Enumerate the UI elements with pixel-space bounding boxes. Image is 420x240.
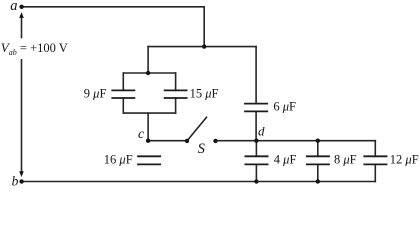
wire vertical x=148 down to parallel block bbox=[147, 47, 149, 73]
svg-text:12 μF: 12 μF bbox=[390, 153, 419, 167]
svg-text:b: b bbox=[12, 173, 19, 188]
wire 9uF top lead bbox=[122, 73, 124, 90]
wire node c to switch pivot bbox=[148, 140, 187, 142]
svg-text:d: d bbox=[258, 124, 265, 139]
wire 6uF bottom lead bbox=[255, 111, 257, 140]
wire 4uF top lead bbox=[255, 141, 257, 157]
wire parallel-block top bus bbox=[123, 72, 175, 74]
junction dot 8uF bottom bbox=[316, 179, 320, 183]
svg-text:16 μF: 16 μF bbox=[104, 153, 133, 167]
switch contact dot bbox=[213, 139, 217, 143]
capacitor 12uF plates bbox=[363, 155, 387, 157]
svg-text:9 μF: 9 μF bbox=[84, 87, 107, 101]
wire parallel-block bottom bus bbox=[123, 112, 175, 114]
junction dot 8uF top bbox=[316, 139, 320, 143]
junction dot parallel-block top bbox=[146, 71, 150, 75]
arrowhead up (at a) bbox=[19, 12, 24, 18]
svg-text:6 μF: 6 μF bbox=[273, 99, 296, 113]
junction dot top feed bbox=[202, 44, 206, 48]
wire 15uF bottom lead bbox=[175, 98, 177, 113]
wire vertical drop to junction bbox=[203, 7, 205, 47]
voltage arrow line upper segment bbox=[21, 16, 23, 38]
wire 8uF bottom lead bbox=[317, 164, 319, 181]
capacitor 16uF plates bbox=[137, 155, 161, 157]
node a junction dot bbox=[19, 5, 23, 9]
svg-text:4 μF: 4 μF bbox=[274, 153, 297, 167]
node d junction dot bbox=[254, 139, 258, 143]
wire 12uF bottom lead bbox=[374, 164, 376, 181]
wire 8uF top lead bbox=[317, 141, 319, 157]
svg-text:S: S bbox=[198, 141, 206, 157]
wire top from a to corner bbox=[22, 6, 205, 8]
switch pivot dot bbox=[185, 139, 189, 143]
wire 15uF top lead bbox=[175, 73, 177, 90]
wire switch contact to node d bbox=[216, 140, 257, 142]
svg-text:c: c bbox=[138, 127, 145, 142]
wire 12uF top lead bbox=[374, 141, 376, 157]
wire center lead down to node c bbox=[147, 113, 149, 141]
voltage arrow line lower segment bbox=[21, 60, 23, 174]
switch S blade bbox=[187, 117, 207, 141]
wire 6uF top lead bbox=[255, 47, 257, 104]
capacitor 8uF plates bbox=[306, 155, 330, 157]
capacitor 15uF plates bbox=[164, 89, 188, 91]
node b junction dot bbox=[19, 179, 23, 183]
capacitor 6uF plates bbox=[244, 103, 268, 105]
svg-text:a: a bbox=[10, 0, 17, 14]
capacitor 9uF plates bbox=[111, 89, 135, 91]
wire bottom from b to 12uF corner bbox=[22, 181, 376, 183]
svg-text:8 μF: 8 μF bbox=[334, 153, 357, 167]
arrowhead down (at b) bbox=[19, 171, 24, 177]
wire 4uF bottom lead bbox=[255, 164, 257, 181]
capacitor 4uF plates bbox=[245, 155, 269, 157]
node c junction dot bbox=[146, 139, 150, 143]
svg-text:15 μF: 15 μF bbox=[190, 87, 219, 101]
junction dot 4uF bottom bbox=[254, 179, 258, 183]
wire horizontal bus y=46.6 bbox=[148, 46, 256, 48]
wire node d to right corner bbox=[256, 140, 375, 142]
wire 9uF bottom lead bbox=[122, 98, 124, 113]
